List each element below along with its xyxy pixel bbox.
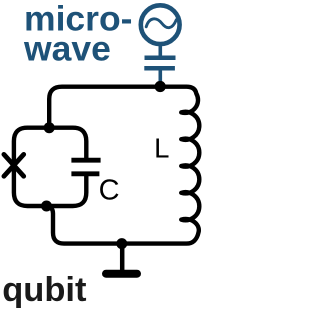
wire: ground stub	[120, 244, 125, 271]
svg-text:C: C	[99, 175, 120, 207]
capacitor (coupling, blue) bottom plate	[144, 66, 175, 71]
svg-text:L: L	[154, 132, 169, 163]
capacitor C top plate	[71, 158, 100, 163]
Josephson junction X	[4, 154, 24, 176]
ground	[106, 270, 137, 278]
node dot: top of qubit loop	[44, 122, 55, 133]
wire from AC source to coupling capacitor	[159, 44, 163, 56]
svg-text:qubit: qubit	[2, 271, 87, 309]
capacitor C bottom plate	[71, 171, 99, 176]
sine wave inside AC source	[146, 19, 176, 28]
label "micro-wave"	[23, 0, 133, 68]
AC source U1 (microwave generator circle)	[141, 5, 180, 44]
wire: top rail with right branch inductor loop	[47, 87, 200, 244]
svg-text:wave: wave	[23, 28, 111, 68]
node dot: bottom of qubit loop	[41, 201, 52, 212]
capacitor (coupling, blue) top plate	[145, 56, 176, 61]
node dot: drive junction on top rail	[155, 81, 166, 92]
node dot: ground junction on bottom rail	[116, 238, 127, 249]
wire from coupling capacitor to top node	[159, 70, 163, 86]
qubit loop (rounded rectangle with gap for capacitor C)	[14, 128, 86, 206]
